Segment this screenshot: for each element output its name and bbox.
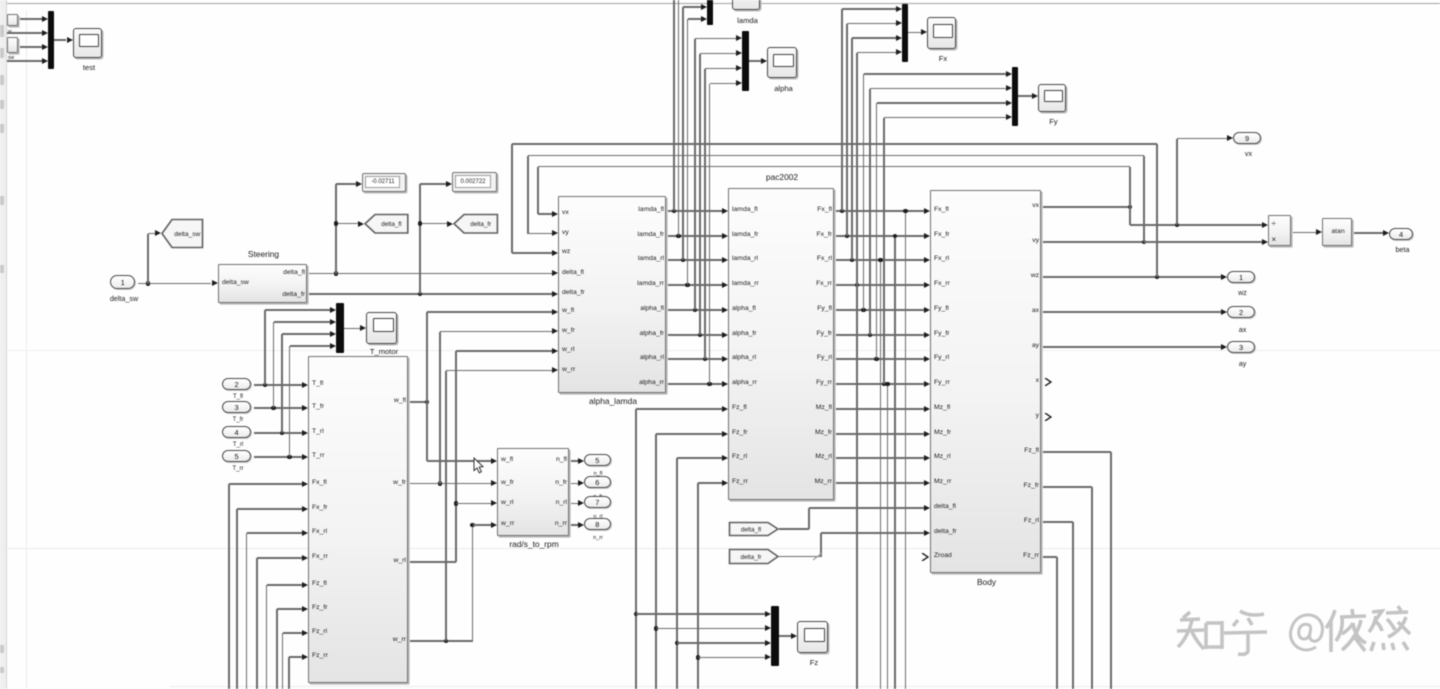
svg-text:delta_sw: delta_sw xyxy=(174,231,200,238)
svg-text:delta_fr: delta_fr xyxy=(740,554,761,561)
svg-text:delta_fr: delta_fr xyxy=(470,221,491,228)
svg-text:delta_fl: delta_fl xyxy=(741,526,761,533)
svg-text:delta_fl: delta_fl xyxy=(381,221,401,228)
